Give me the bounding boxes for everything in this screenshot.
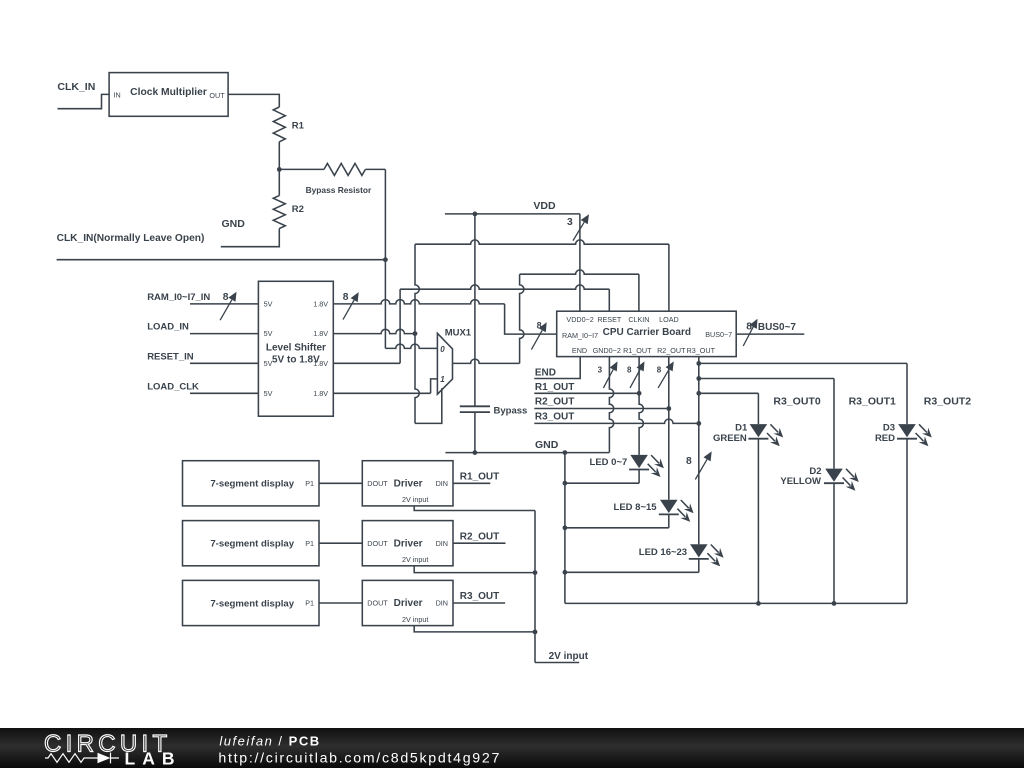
svg-text:Level Shifter: Level Shifter <box>266 342 326 353</box>
svg-text:BUS0~7: BUS0~7 <box>758 322 797 333</box>
svg-text:CLK_IN(Normally Leave Open): CLK_IN(Normally Leave Open) <box>57 233 205 244</box>
svg-text:GREEN: GREEN <box>713 433 747 444</box>
svg-text:CPU Carrier Board: CPU Carrier Board <box>603 327 691 338</box>
svg-text:R1: R1 <box>292 121 305 132</box>
svg-text:P1: P1 <box>305 539 314 548</box>
svg-text:LED 8~15: LED 8~15 <box>614 502 658 513</box>
svg-text:Driver: Driver <box>394 538 423 549</box>
svg-text:2V input: 2V input <box>402 495 428 504</box>
svg-text:R3_OUT: R3_OUT <box>535 411 574 422</box>
svg-text:DIN: DIN <box>436 479 448 488</box>
svg-text:GND: GND <box>222 218 246 230</box>
svg-text:R1_OUT: R1_OUT <box>535 382 574 393</box>
svg-text:1.8V: 1.8V <box>313 300 328 309</box>
svg-text:IN: IN <box>114 91 121 100</box>
svg-text:DOUT: DOUT <box>367 479 388 488</box>
svg-text:LOAD_IN: LOAD_IN <box>147 322 189 333</box>
svg-text:R3_OUT2: R3_OUT2 <box>924 396 971 408</box>
svg-text:GND: GND <box>535 439 559 451</box>
svg-text:R2_OUT: R2_OUT <box>460 531 499 542</box>
svg-text:3: 3 <box>567 217 573 228</box>
svg-text:8: 8 <box>627 365 632 374</box>
svg-text:RESET: RESET <box>597 315 622 324</box>
svg-text:2V input: 2V input <box>402 555 428 564</box>
svg-text:3: 3 <box>598 365 603 374</box>
svg-text:http://circuitlab.com/c8d5kpdt: http://circuitlab.com/c8d5kpdt4g927 <box>218 751 501 767</box>
svg-text:MUX1: MUX1 <box>445 328 472 339</box>
svg-text:R3_OUT: R3_OUT <box>687 346 716 355</box>
svg-text:lufeifan / PCB: lufeifan / PCB <box>219 733 320 748</box>
svg-text:8: 8 <box>686 456 692 467</box>
svg-text:P1: P1 <box>305 479 314 488</box>
svg-text:Driver: Driver <box>394 598 423 609</box>
svg-text:R2: R2 <box>292 204 304 215</box>
svg-text:END: END <box>572 346 587 355</box>
svg-text:RAM_I0~I7_IN: RAM_I0~I7_IN <box>147 292 210 303</box>
svg-text:P1: P1 <box>305 599 314 608</box>
svg-text:GND0~2: GND0~2 <box>593 346 621 355</box>
svg-text:DIN: DIN <box>436 539 448 548</box>
svg-text:LOAD_CLK: LOAD_CLK <box>147 381 199 392</box>
svg-text:END: END <box>535 367 556 378</box>
svg-text:LED 0~7: LED 0~7 <box>590 457 628 468</box>
svg-text:CLK_IN: CLK_IN <box>57 81 95 93</box>
svg-text:LED 16~23: LED 16~23 <box>639 547 687 558</box>
svg-text:2V input: 2V input <box>549 651 589 662</box>
svg-text:1.8V: 1.8V <box>313 329 328 338</box>
svg-text:RED: RED <box>875 433 895 444</box>
svg-text:5V: 5V <box>264 389 273 398</box>
svg-text:BUS0~7: BUS0~7 <box>705 330 732 339</box>
svg-text:8: 8 <box>657 365 662 374</box>
svg-text:RAM_I0~I7: RAM_I0~I7 <box>562 331 598 340</box>
svg-text:R2_OUT: R2_OUT <box>657 346 686 355</box>
svg-text:LOAD: LOAD <box>659 315 679 324</box>
svg-text:5V: 5V <box>264 329 273 338</box>
svg-text:D3: D3 <box>883 423 895 434</box>
svg-text:YELLOW: YELLOW <box>780 476 821 487</box>
svg-text:DOUT: DOUT <box>367 539 388 548</box>
svg-text:5V: 5V <box>264 300 273 309</box>
svg-text:OUT: OUT <box>209 91 225 100</box>
svg-text:8: 8 <box>223 292 229 303</box>
svg-text:7-segment display: 7-segment display <box>210 479 294 490</box>
svg-text:5V to 1.8V: 5V to 1.8V <box>272 354 320 365</box>
svg-text:R3_OUT: R3_OUT <box>460 591 499 602</box>
svg-text:D1: D1 <box>735 423 748 434</box>
svg-text:R2_OUT: R2_OUT <box>535 397 574 408</box>
svg-text:DIN: DIN <box>436 599 448 608</box>
svg-text:Bypass Resistor: Bypass Resistor <box>306 185 372 195</box>
svg-text:Driver: Driver <box>394 479 423 490</box>
svg-text:R1_OUT: R1_OUT <box>623 346 652 355</box>
svg-text:0: 0 <box>440 345 445 354</box>
svg-text:Bypass: Bypass <box>494 405 528 416</box>
svg-text:VDD0~2: VDD0~2 <box>566 315 593 324</box>
svg-text:DOUT: DOUT <box>367 599 388 608</box>
svg-text:2V input: 2V input <box>402 615 428 624</box>
svg-text:7-segment display: 7-segment display <box>210 598 294 609</box>
svg-text:R3_OUT1: R3_OUT1 <box>849 396 896 408</box>
svg-text:7-segment display: 7-segment display <box>210 539 294 550</box>
svg-text:1: 1 <box>440 375 445 384</box>
svg-text:VDD: VDD <box>533 200 556 212</box>
svg-text:8: 8 <box>343 292 349 303</box>
svg-text:Clock Multiplier: Clock Multiplier <box>130 87 207 98</box>
svg-text:RESET_IN: RESET_IN <box>147 351 194 362</box>
svg-text:LAB: LAB <box>125 748 182 768</box>
svg-text:R3_OUT0: R3_OUT0 <box>773 396 820 408</box>
svg-text:1.8V: 1.8V <box>313 389 328 398</box>
svg-text:R1_OUT: R1_OUT <box>460 472 499 483</box>
svg-text:CLKIN: CLKIN <box>628 315 649 324</box>
